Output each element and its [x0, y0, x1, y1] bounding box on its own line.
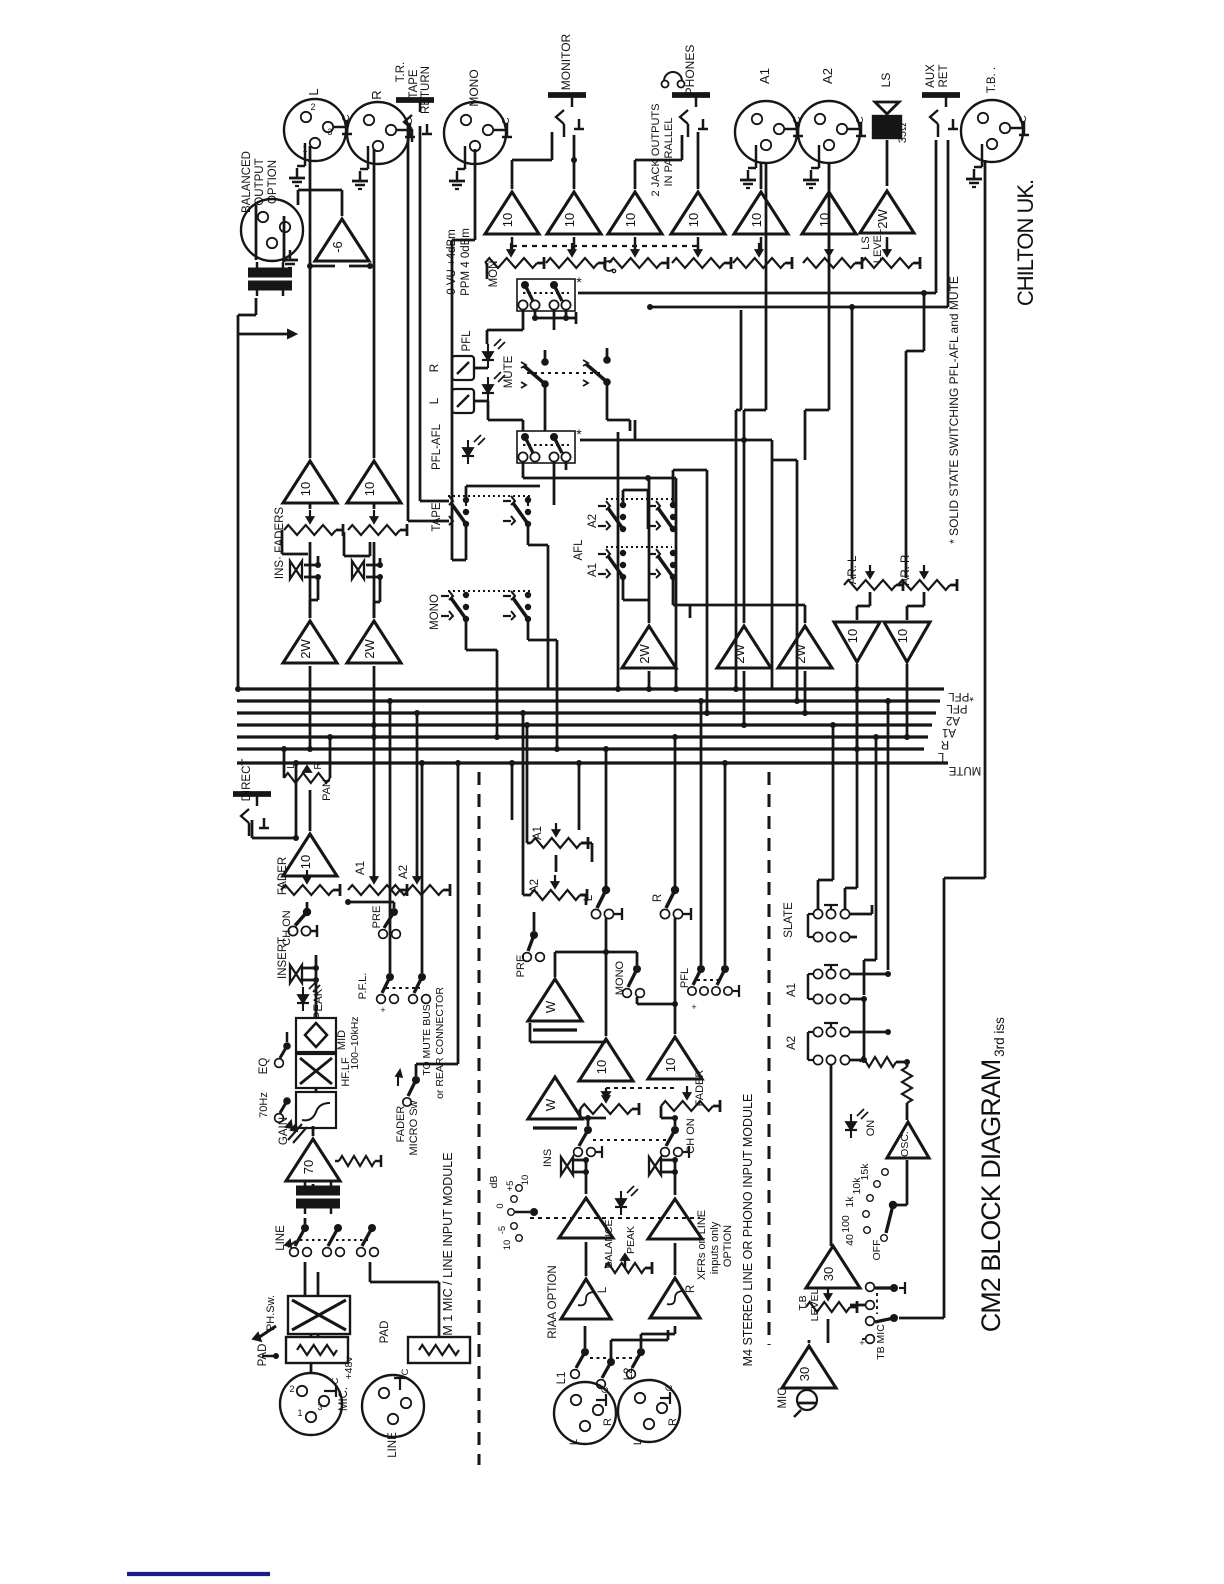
svg-text:10: 10 — [298, 482, 313, 496]
svg-text:A1: A1 — [786, 983, 798, 997]
svg-text:10: 10 — [502, 1240, 513, 1251]
svg-text:LINE: LINE — [387, 1432, 399, 1458]
wire mono drop — [689, 605, 691, 618]
ground for XLR MONO — [464, 146, 466, 169]
svg-text:PFL: PFL — [679, 968, 691, 988]
wire amp761 to XLR A1 — [760, 162, 763, 189]
svg-text:PAD: PAD — [379, 1321, 391, 1344]
switch mono L — [463, 592, 469, 598]
svg-text:L: L — [568, 1439, 580, 1445]
svg-text:BALANCED: BALANCED — [241, 151, 253, 213]
bus line PFL — [237, 699, 940, 702]
svg-text:C: C — [501, 117, 512, 124]
wires below assembly 2 — [522, 463, 525, 478]
svg-text:TB MIC: TB MIC — [875, 1324, 887, 1360]
pot fader M1 — [281, 885, 333, 895]
svg-text:OPTION: OPTION — [267, 160, 279, 204]
jack PHONES — [672, 92, 710, 98]
svg-text:2W: 2W — [732, 644, 747, 664]
op-amp -6 balanced driver — [315, 219, 369, 261]
svg-text:10: 10 — [362, 482, 377, 496]
op-amp aux return R 10 — [884, 622, 930, 662]
wire amp574 to monitor jack — [573, 135, 576, 189]
svg-text:C: C — [664, 1384, 674, 1391]
svg-text:AFL: AFL — [573, 539, 585, 561]
svg-text:L: L — [306, 88, 321, 95]
wire mic to pad — [310, 1363, 313, 1373]
connector XLR L output — [284, 99, 346, 161]
svg-text:dB: dB — [488, 1176, 500, 1189]
wire pot511 down to switch matrix — [486, 263, 489, 279]
wire amp out up to pan — [309, 790, 312, 831]
insert jack group L — [290, 561, 302, 579]
svg-text:10: 10 — [845, 629, 860, 643]
fader wires — [579, 1109, 582, 1118]
wire -6 output — [341, 190, 344, 216]
wire XLR L to group amp — [309, 146, 312, 458]
svg-text:2W: 2W — [362, 639, 377, 659]
svg-text:2: 2 — [289, 1384, 294, 1394]
svg-text:A2: A2 — [529, 879, 541, 893]
svg-text:3: 3 — [327, 127, 332, 137]
svg-text:ON: ON — [865, 1120, 877, 1137]
op-amp monitor 10 — [547, 192, 601, 234]
svg-text:T.B: T.B — [797, 1295, 809, 1310]
svg-text:10: 10 — [686, 213, 701, 227]
svg-text:15k: 15k — [859, 1163, 871, 1181]
svg-text:2W: 2W — [793, 644, 808, 664]
svg-text:L: L — [597, 1286, 609, 1293]
wire drop 736 — [735, 410, 738, 689]
wires below assembly 1 — [522, 309, 525, 330]
svg-text:PRE: PRE — [371, 906, 383, 929]
ground for XLR T.B. — [981, 144, 983, 167]
svg-text:3: 3 — [317, 1402, 322, 1412]
svg-text:MUTE: MUTE — [503, 355, 515, 388]
ground for XLR A2 — [818, 145, 820, 168]
phase switch box — [288, 1296, 350, 1334]
pot balance — [605, 1263, 645, 1273]
wire fader to amp — [306, 878, 308, 879]
meter R — [452, 356, 474, 380]
gang dashes pots — [512, 245, 698, 247]
aux return pots wires — [851, 307, 854, 578]
svg-text:10: 10 — [500, 213, 515, 227]
svg-text:BALANCE: BALANCE — [603, 1219, 615, 1268]
svg-text:-5: -5 — [497, 1226, 508, 1234]
svg-text:PFL: PFL — [461, 330, 473, 352]
svg-text:CH ON: CH ON — [685, 1118, 697, 1154]
switch MONO M4 — [633, 965, 641, 973]
svg-text:L: L — [632, 1439, 644, 1445]
wire matrix drop 635 — [634, 420, 637, 440]
svg-text:40: 40 — [844, 1234, 856, 1246]
switch afl A1 R — [670, 550, 676, 556]
pot monitor level — [546, 258, 598, 268]
pot LS level — [861, 258, 913, 268]
switch assembly monitor PFL-AFL — [517, 279, 575, 311]
svg-text:+: + — [380, 1005, 385, 1015]
svg-text:T.R.: T.R. — [395, 62, 407, 82]
op-amp A2 10 — [802, 192, 856, 234]
svg-text:OSC.: OSC. — [899, 1131, 911, 1157]
tb bank wires up to bus — [817, 880, 820, 909]
svg-text:MID: MID — [336, 1030, 348, 1050]
svg-text:L: L — [937, 750, 944, 762]
svg-text:CHILTON UK.: CHILTON UK. — [1013, 180, 1038, 306]
wire MONO XLR down — [474, 149, 477, 240]
wire amp512 up — [511, 160, 514, 189]
mute gang dashes — [527, 372, 600, 374]
svg-text:W: W — [543, 1098, 558, 1111]
svg-text:PRE: PRE — [515, 955, 527, 978]
led PFL R — [483, 352, 493, 360]
svg-text:A1: A1 — [532, 826, 544, 840]
op-amp group R 2W — [347, 621, 401, 663]
wire tb level to amp — [832, 1291, 834, 1295]
svg-text:LS: LS — [860, 236, 872, 249]
op-amp TB mix 30 — [806, 1246, 860, 1288]
pot AR L — [844, 580, 896, 590]
ground for XLR R — [367, 146, 369, 169]
svg-text:PAN: PAN — [321, 779, 333, 801]
connector XLR LINE — [362, 1375, 424, 1437]
svg-text:2: 2 — [310, 102, 315, 112]
op-amp mic gain 70 — [286, 1139, 340, 1181]
switch afl A1 L — [620, 550, 626, 556]
pot A2 level — [803, 258, 855, 268]
m4 insert wires — [573, 1159, 586, 1162]
mono gang dashes — [448, 590, 530, 592]
svg-text:LINE: LINE — [275, 1225, 287, 1251]
switch PRE M4 — [530, 931, 538, 939]
svg-text:INS: INS — [542, 1149, 554, 1167]
svg-text:A1: A1 — [942, 726, 956, 738]
svg-text:R: R — [685, 1285, 697, 1293]
svg-text:OPTION: OPTION — [722, 1225, 734, 1267]
switch PFL M4 pair — [697, 965, 705, 973]
op-amp line R with balance — [648, 1199, 702, 1239]
svg-text:M4 STEREO LINE OR PHONO I: M4 STEREO LINE OR PHONO INPUT MODULE — [741, 1094, 755, 1367]
wire pre to W — [547, 961, 549, 970]
svg-text:0: 0 — [495, 1203, 506, 1208]
svg-text:A1: A1 — [587, 563, 599, 577]
switch CH ON M4 L — [584, 1126, 592, 1134]
line C stub — [399, 1378, 401, 1390]
wire transformer primary — [255, 205, 258, 260]
input select switches M4 — [581, 1348, 589, 1356]
switch afl A2 L — [620, 502, 626, 508]
svg-text:PH.Sw.: PH.Sw. — [265, 1295, 277, 1331]
pad bypass switch — [258, 1326, 276, 1338]
pad block line — [408, 1337, 470, 1363]
wire amp635 to phones jack — [634, 160, 637, 189]
switch R routing M4 — [671, 886, 679, 894]
svg-text:T.B. .: T.B. . — [986, 67, 998, 93]
switch PRE M1 — [390, 908, 398, 916]
osc level resistor — [902, 1067, 912, 1103]
wires group amps to bus — [309, 666, 312, 749]
switch tape L — [463, 497, 469, 503]
svg-text:2 JACK OUTPUTS: 2 JACK OUTPUTS — [650, 104, 662, 197]
pot TB LEVEL — [806, 1302, 850, 1312]
svg-text:70: 70 — [301, 1160, 316, 1174]
svg-text:XFRs on LINE: XFRs on LINE — [696, 1210, 708, 1280]
jack DIRECT — [233, 791, 271, 797]
svg-text:MONITOR: MONITOR — [559, 33, 573, 90]
ground for XLR L — [304, 143, 306, 166]
wire assembly1 star out — [578, 292, 936, 295]
wire arrow into balanced — [238, 333, 288, 336]
pot AR R — [898, 580, 950, 590]
svg-text:-6: -6 — [330, 241, 345, 253]
headphone coupling curl — [604, 261, 613, 271]
svg-text:or REAR CONNECTOR: or REAR CONNECTOR — [434, 987, 446, 1099]
op-amp A1 10 — [734, 192, 788, 234]
op-amp RIAA R — [650, 1278, 700, 1318]
pre wires — [393, 902, 396, 908]
mic input transformer — [296, 1186, 340, 1191]
wire sends to bus — [373, 725, 376, 878]
connector XLR L2 — [618, 1380, 680, 1442]
gain feedback resistor — [339, 1156, 375, 1166]
wire star2 run — [580, 439, 772, 442]
pot M1 A2 send — [391, 885, 443, 895]
pot fader M4 R — [661, 1101, 713, 1111]
pot group fader L — [284, 525, 336, 535]
svg-text:P.F.L.: P.F.L. — [357, 973, 369, 1000]
pot M1 A1 send — [348, 885, 400, 895]
microphone TB — [797, 1390, 817, 1410]
m4 send wires — [527, 842, 531, 845]
jack MONITOR — [548, 92, 586, 98]
wire eq bypass — [286, 1032, 288, 1042]
op-amp jack out 10 — [608, 192, 662, 234]
mute wire runs — [544, 398, 547, 431]
svg-text:100: 100 — [840, 1215, 852, 1233]
tb switch bank wires right — [850, 913, 872, 916]
svg-text:MONO: MONO — [429, 594, 441, 630]
svg-text:MONO: MONO — [467, 69, 481, 106]
wires switches up — [584, 1326, 587, 1348]
insert jack group R — [352, 561, 364, 579]
wire phase to line switches — [304, 1262, 307, 1296]
connector XLR L1 — [554, 1382, 616, 1444]
op-amp group L 2W — [283, 621, 337, 663]
svg-text:MIC: MIC — [777, 1387, 789, 1408]
balanced output transformer — [248, 268, 292, 273]
op-amp RIAA L — [561, 1279, 611, 1319]
wire slate feed down — [924, 763, 926, 1285]
pad block mic — [286, 1337, 348, 1363]
afl gang dashes — [606, 498, 672, 500]
svg-text:R: R — [652, 894, 664, 902]
svg-text:10: 10 — [520, 1175, 531, 1186]
afl wires — [622, 490, 625, 505]
switch mono R — [525, 592, 531, 598]
wires riaa to balance amps — [585, 1242, 588, 1276]
svg-text:R: R — [941, 738, 949, 750]
wire direct to channel — [251, 820, 254, 838]
wire ch.on — [315, 948, 317, 955]
bus line R — [237, 735, 928, 738]
svg-text:35Ω: 35Ω — [897, 123, 909, 143]
op-amp LS 2W — [860, 191, 914, 233]
svg-text:C: C — [400, 1368, 411, 1375]
wire balance amps outputs — [585, 1160, 588, 1194]
switch L routing M4 — [602, 886, 610, 894]
switch CH ON M4 R — [671, 1126, 679, 1134]
gain arrows — [288, 1124, 302, 1140]
pot group fader R — [348, 525, 400, 535]
wire line switches up — [304, 1218, 307, 1224]
loudspeaker LS — [875, 102, 899, 114]
op-amp A1 mix 2W — [717, 626, 771, 668]
op-amp phones 10 — [671, 192, 725, 234]
wire tape return tip — [407, 126, 410, 521]
svg-text:GAIN: GAIN — [278, 1117, 290, 1145]
peak led — [298, 995, 308, 1003]
svg-text:10: 10 — [623, 213, 638, 227]
svg-text:DIRECT: DIRECT — [241, 759, 253, 802]
op-amp M4 R 10 — [648, 1037, 702, 1079]
fader gang dashed — [606, 1087, 675, 1089]
wire 2W to LS — [886, 140, 889, 186]
svg-text:TO MUTE BUS: TO MUTE BUS — [421, 1004, 433, 1076]
svg-text:IN PARALLEL: IN PARALLEL — [663, 118, 675, 187]
svg-text:1: 1 — [297, 1408, 302, 1418]
pfl wires to bus — [389, 701, 392, 973]
tb mic switch wires — [850, 1304, 866, 1307]
svg-text:L: L — [427, 397, 441, 404]
wire drop 797 — [796, 460, 799, 701]
eq chain wires — [315, 1088, 318, 1092]
switch assembly PFL-AFL to meters — [517, 431, 575, 463]
svg-text:10: 10 — [663, 1058, 678, 1072]
svg-text:100–10kHz: 100–10kHz — [349, 1016, 361, 1069]
svg-text:*: * — [576, 274, 582, 290]
ground for XLR A1 — [755, 145, 757, 168]
svg-text:LEVEL: LEVEL — [872, 229, 884, 263]
wires group amp outputs — [309, 542, 312, 618]
svg-text:MUTE: MUTE — [948, 764, 981, 776]
mic C stub — [324, 1390, 336, 1392]
wire pad to phase — [317, 1334, 320, 1337]
svg-text:AUX: AUX — [925, 64, 937, 88]
L1 C stub — [596, 1399, 606, 1401]
footer blue line — [127, 1572, 270, 1576]
op-amp group out R 10 — [347, 461, 401, 503]
ch on gang — [593, 1139, 670, 1141]
pot A1 level — [733, 258, 785, 268]
svg-text:A2: A2 — [587, 514, 599, 528]
bus line *PFL — [237, 687, 944, 690]
svg-text:+5: +5 — [505, 1181, 516, 1192]
W amp wires — [554, 1121, 556, 1128]
svg-text:FADER: FADER — [395, 1106, 407, 1143]
connector XLR T.B. — [961, 100, 1023, 162]
meter L — [452, 389, 474, 413]
svg-text:TAPE: TAPE — [408, 69, 420, 99]
module separator dashed 2 — [767, 772, 770, 1345]
summing amp W lower — [528, 1077, 582, 1119]
svg-text:10: 10 — [594, 1060, 609, 1074]
wire -6 inputs — [310, 265, 335, 268]
eq bypass switch upper — [283, 1042, 291, 1050]
summing amp W upper — [528, 979, 582, 1021]
connector XLR A2 output — [798, 101, 860, 163]
wire A1 xlr feed — [743, 410, 746, 440]
op-amp aux return L 10 — [834, 622, 880, 662]
wire matrix drop 618 — [617, 432, 620, 689]
switch CH.ON M1 — [303, 908, 311, 916]
svg-text:R: R — [369, 90, 384, 99]
svg-text:LS: LS — [879, 73, 893, 88]
svg-text:10: 10 — [562, 213, 577, 227]
connector XLR MONO — [444, 102, 506, 164]
svg-text:PFL-AFL: PFL-AFL — [431, 423, 443, 470]
wire tb mic amp to pot — [809, 1342, 828, 1344]
svg-text:PFL: PFL — [946, 702, 968, 714]
mute switch left — [521, 362, 526, 368]
op-amp TB mic 30 — [782, 1346, 836, 1388]
svg-text:3rd iss: 3rd iss — [992, 1017, 1007, 1057]
svg-text:OUTPUT: OUTPUT — [254, 158, 266, 205]
insert jack M1 — [290, 965, 302, 983]
svg-text:CM2 BLOCK DIAGRAM: CM2 BLOCK DIAGRAM — [976, 1060, 1006, 1333]
svg-text:RET: RET — [938, 65, 950, 88]
op-amp mono 2W — [622, 626, 676, 668]
svg-text:PHONES: PHONES — [683, 45, 697, 96]
m4 send pots — [531, 838, 581, 848]
tape gang dashes — [448, 495, 530, 497]
wire A2 xlr feed — [804, 440, 806, 460]
switch tape R — [525, 497, 531, 503]
wire drops in module zone — [295, 763, 298, 838]
svg-text:1k: 1k — [844, 1196, 856, 1208]
wire ch on up to faders — [587, 1118, 590, 1126]
connector XLR MIC — [280, 1373, 342, 1435]
svg-text:PEAK: PEAK — [625, 1226, 637, 1254]
wire tb route to pots — [852, 1306, 866, 1308]
line switch gang dots — [300, 1239, 368, 1241]
wire tape return ring — [419, 126, 422, 501]
svg-text:EQ: EQ — [258, 1058, 270, 1075]
L2 C stub — [660, 1397, 670, 1399]
svg-text:RETURN: RETURN — [420, 66, 432, 114]
pot phones level — [672, 258, 724, 268]
pot fader M4 L — [580, 1104, 632, 1114]
svg-text:10: 10 — [749, 213, 764, 227]
wire line pad up — [438, 1282, 441, 1337]
svg-text:C: C — [855, 116, 866, 123]
svg-text:C: C — [1018, 115, 1029, 122]
wire amp829 to XLR A2 — [828, 162, 831, 189]
wire to mute bus — [415, 1064, 418, 1076]
connector XLR R output — [347, 102, 409, 164]
wire TB XLR long runs — [984, 160, 987, 878]
svg-text:10: 10 — [895, 629, 910, 643]
bus line MUTE — [237, 761, 948, 764]
svg-text:0 VU +4dBm: 0 VU +4dBm — [446, 229, 458, 295]
svg-text:2W: 2W — [875, 209, 890, 229]
op-amp group out L 10 — [283, 461, 337, 503]
svg-text:MONO: MONO — [614, 960, 626, 995]
balance gang dashed — [530, 1217, 700, 1219]
svg-text:TAPE: TAPE — [431, 502, 443, 532]
jack T.R tape return — [396, 97, 434, 103]
mute switch right — [583, 360, 588, 366]
